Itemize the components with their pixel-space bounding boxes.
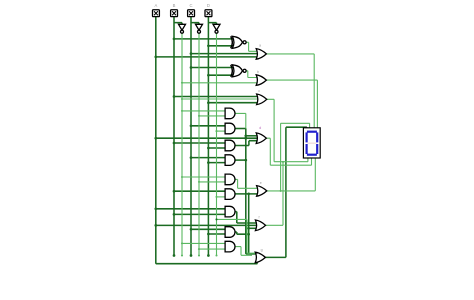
components [153,10,267,263]
wire pin A stub [155,17,157,57]
wire AND4 input top from C [191,157,225,159]
wire OR1 output to display top pin3 [266,54,314,128]
wire AND1 input bottom from notC [199,115,226,117]
node notB y247 [181,242,183,244]
node B end [173,254,176,257]
wires-light [182,33,317,255]
input pin B [171,10,178,17]
and gate AND9 [225,241,235,252]
node D y45 [207,44,210,47]
node OR6 join [282,161,284,163]
node B y213 [173,213,176,216]
wire AND3 input bottom from D [208,147,225,149]
and gate AND7 [225,206,235,217]
wire inverter D input branch [208,23,216,25]
wire AND9 input top from notB [182,242,226,244]
svg-text:B: B [173,3,176,8]
wire AND8 input top from C [191,228,225,230]
input pin A [153,10,160,17]
and gate AND8 [225,227,235,238]
node C y157 [190,156,193,159]
wire XNOR U2 input top from C [191,67,233,69]
wire OR2 output to display top pin4 [266,80,317,128]
svg-text:a: a [259,44,261,48]
wire XNOR U2 output elbow [246,71,259,78]
wire OR3 input middle from notB [182,98,260,100]
node notB end [181,254,183,256]
wire AND2 input top from C [191,125,225,127]
wire XNOR U1 output elbow [246,42,259,51]
and gate AND3 [225,140,235,151]
svg-text:f: f [259,216,260,220]
wire AND6 output to OR5 [235,193,260,195]
wire OR3 input bottom from D [208,102,259,104]
wire light vertical x246.9 [247,219,259,253]
and gate AND6 [225,189,235,200]
wire OR2 input bottom from notB [182,82,259,84]
node C y68 [190,66,193,69]
wire net-A bottom y264.5 to OR7 [156,260,257,264]
node A and7 [154,207,157,210]
wire net-A horizontal y57 to OR1 [156,56,259,58]
node A y138 [154,137,157,140]
wire AND6 input top from B [174,190,225,192]
wire XNOR U1 input bottom from D [208,45,233,47]
wire net-A vertical x155.8 [155,57,157,264]
or gate OR4 [256,133,266,144]
wire B bus [173,17,175,256]
and gate AND5 [225,174,235,185]
node D y162 [207,161,210,164]
inverter notC [196,24,203,33]
node wrap y228.3 [247,227,250,230]
node notB y82 [181,82,183,84]
input pin D [205,10,212,17]
node B y190 [173,190,176,193]
wire OR7 input top feed [246,253,259,255]
or gate OR2 [256,75,266,86]
wire AND1 output [235,113,246,128]
wire AND9 input bottom from notC [199,248,226,250]
node notC end [198,254,200,256]
node notD end [215,254,217,256]
node wrap y138 [244,137,247,140]
wire notC bus [198,33,200,255]
node wrap x248 y234 [247,233,250,236]
svg-text:C: C [189,3,192,8]
svg-text:g: g [261,248,263,252]
node D y101 [207,101,210,104]
node A-pin tee [154,56,157,59]
wire OR6 bottom input branch [249,227,259,229]
junction dots light [181,82,284,257]
node notC y116 [198,115,200,117]
wire AND3 input top from B [174,142,225,144]
wire AND9 output to OR7 [235,247,253,256]
node C y228 [190,228,193,231]
xnor gate U2 [231,65,246,77]
wire AND7 output to OR6 top [235,212,259,223]
node C y126 [190,124,193,127]
node notB y99 [181,98,183,100]
wire AND8 input bottom from D [208,233,225,235]
node D y233 [207,233,210,236]
wire OR4 input top branch [246,135,259,137]
wire AND5 input top from notB [182,176,226,178]
node D end [207,254,210,257]
svg-text:b: b [257,70,259,74]
node wrap y159.9 [244,159,247,162]
and gate AND2 [225,123,235,134]
wire AND7 input top from A [156,208,226,210]
or gate OR7 [255,252,265,263]
wire AND6 input bottom from notD [217,196,226,198]
or gate OR6 [255,220,265,231]
wire net-A horizontal y225 to OR6 [156,224,259,226]
svg-text:e: e [260,181,262,185]
7-segment display U10 [303,128,320,158]
and gate AND1 [225,108,235,119]
wire OR5 output to display bottom pin3 [267,158,316,191]
wire OR4 output to display bottom pin2 [266,138,311,165]
node A x155 y225 [154,224,157,227]
wire XNOR U2 input bottom from D [208,74,233,76]
or gate OR1 [256,49,266,60]
wire AND2 input bottom from notD [217,130,226,132]
wire notD feeder y219.4 [217,218,247,220]
inverter notD [213,24,220,33]
wire notD bus [216,33,218,255]
node OR5 branch [280,190,282,192]
node B y96 [173,95,176,98]
wire AND2 output wrap [235,128,246,130]
wire OR5 branch to display top pin2 [281,123,310,191]
wire D bus [207,17,209,256]
wire net-A feeder y138 to OR4 [156,137,259,139]
node notC y181 [198,181,200,183]
wire XNOR U1 input top from B [174,38,233,40]
node wrap y136 [244,134,247,137]
wire OR7 output to display pin1 [265,127,307,257]
node D y147 [207,147,210,150]
wire AND5 input bottom from notC [199,181,226,183]
node D y73 [207,74,210,77]
svg-text:D: D [207,3,210,8]
or gate OR3 [257,94,267,105]
wire AND3 output to OR4 bottom [235,141,260,146]
svg-text:A: A [155,3,158,8]
node B y142 [173,142,176,145]
wire OR6 output to net join [266,162,283,225]
svg-text:d: d [259,126,261,130]
node C end [190,254,193,257]
and gate AND4 [225,155,235,166]
wire AND4 output wrap [235,159,246,161]
node notD y131 [215,130,217,132]
node C y53.6 [190,52,193,55]
wire inverter C input branch [191,23,199,25]
inverter notB [179,24,186,33]
wire AND4 input bottom from D [208,162,225,164]
wire AND1 input top from notB [182,110,226,112]
node B y39 [173,38,176,41]
wire AND5 output to OR5 top [235,179,260,188]
node notB y176 [181,176,183,178]
wire C feeder y53.6 to OR1 middle [191,53,259,55]
node notD y219.4 [215,218,217,220]
wire OR3 output to display bottom pin1 [267,99,308,161]
wire AND8 output jog [235,232,249,234]
wire OR3 input top from B [174,96,260,98]
wire wrap vertical x245.8 [245,129,247,254]
wire AND7 input bottom from B [174,213,225,215]
xnor gate U1 [231,36,246,48]
wire C bus [190,17,192,256]
input pin C [188,10,195,17]
node notC y252 [198,248,200,250]
junction dots dark [154,38,250,257]
wires-dark [156,17,307,264]
wire wrap vertical x248.7 [248,194,250,255]
node notD y194 [215,196,217,198]
wire inverter B input branch [174,23,182,25]
wire notB bus [181,33,183,255]
node wrap y193.9 [247,193,250,196]
or gate OR5 [257,186,267,197]
node notB y111 [181,110,183,112]
svg-text:c: c [258,89,260,93]
